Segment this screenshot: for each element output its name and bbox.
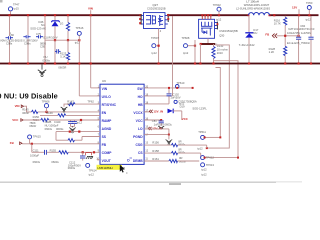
capacitor C66: [6, 16, 15, 63]
resistor R148: [29, 118, 100, 128]
svg-text:0603s: 0603s: [56, 127, 64, 131]
svg-text:EC-E-EX5_75K03c: EC-E-EX5_75K03c: [287, 41, 311, 45]
svg-text:VCC: VCC: [136, 119, 144, 123]
wire vertical x=79.3 to UVLO: [79, 40, 100, 96]
svg-text:TP607: TP607: [151, 36, 159, 40]
svg-text:CSD19532Q5B: CSD19532Q5B: [147, 7, 166, 11]
Q27 source pin 4: [159, 29, 162, 33]
capacitor C112 + earth ground + TP614: [68, 152, 97, 176]
wire SW sense (vertical x=235.6): [214, 61, 239, 158]
svg-text:C111: C111: [33, 148, 40, 152]
junctions on ground bus: [8, 62, 312, 64]
svg-text:TP613: TP613: [206, 163, 214, 167]
capacitor C408 bank + ground: [45, 120, 83, 133]
svg-text:10.7K: 10.7K: [274, 22, 281, 26]
svg-text:1G: 1G: [60, 21, 64, 25]
test point TP611: [197, 130, 221, 150]
svg-text:0603s: 0603s: [51, 160, 59, 164]
resistor R123 5.1K: [60, 40, 70, 63]
wire PGND row + ground: [144, 134, 172, 146]
svg-text:NU: NU: [41, 23, 45, 27]
svg-text:tp15: tp15: [14, 6, 20, 10]
svg-text:9 NU: U9 Disable: 9 NU: U9 Disable: [0, 91, 58, 100]
transistor Q27 CSD19532Q5B: [144, 3, 166, 29]
svg-text:TP602: TP602: [213, 3, 221, 7]
U9 pin numbers right: [145, 85, 148, 160]
IC U9 LM5118 box: [100, 79, 144, 165]
resistor R158 0R (CS): [144, 148, 201, 158]
net FB label: [265, 32, 299, 38]
svg-text:LM5118MH: LM5118MH: [97, 166, 112, 170]
svg-text:tp12: tp12: [183, 51, 189, 55]
svg-text:tp12: tp12: [216, 17, 222, 21]
svg-text:0603r: 0603r: [178, 143, 185, 147]
wire sense line CS (vertical x=228.1): [206, 45, 230, 149]
test point TP60: [306, 1, 313, 21]
svg-text:100uF/35V 1uF/50V: 100uF/35V 1uF/50V: [287, 31, 311, 35]
svg-text:C42B: C42B: [45, 120, 52, 124]
svg-text:1.2K: 1.2K: [269, 50, 275, 54]
svg-text:FB: FB: [10, 141, 14, 145]
svg-text:L2-SUNLORD-WWS41206S: L2-SUNLORD-WWS41206S: [236, 6, 270, 10]
svg-text:1000pF: 1000pF: [30, 153, 39, 157]
svg-text:TP611: TP611: [198, 130, 206, 134]
svg-text:T-J02-A1K42: T-J02-A1K42: [239, 43, 255, 47]
svg-text:UVLO: UVLO: [102, 95, 112, 99]
svg-text:C81: C81: [152, 119, 157, 123]
window edge line bottom: [0, 181, 302, 185]
svg-text:0603r: 0603r: [178, 151, 185, 155]
net VCC flag (RAMP row): [12, 118, 41, 122]
wire VCC pin row + capacitor C88: [144, 119, 172, 129]
svg-text:LO: LO: [138, 127, 143, 131]
svg-text:TP616: TP616: [76, 26, 84, 30]
capacitor C96: [36, 16, 45, 63]
U9 right pin names: [127, 87, 143, 163]
svg-text:tp12: tp12: [89, 173, 95, 177]
test point TP608: [182, 36, 197, 55]
svg-text:SW: SW: [137, 87, 143, 91]
diode D18: [168, 107, 208, 114]
svg-text:R155: R155: [50, 148, 57, 152]
capacitor C86: [287, 16, 314, 63]
test point TP607: [151, 36, 160, 55]
svg-text:R158: R158: [152, 149, 159, 153]
wire sense line CSG (vertical x=221.7): [216, 68, 221, 138]
svg-text:0603s: 0603s: [45, 127, 53, 131]
svg-text:TP612: TP612: [206, 155, 214, 159]
net FB flag row: [10, 141, 100, 145]
svg-text:VCC: VCC: [182, 117, 189, 121]
svg-text:0603s: 0603s: [68, 166, 76, 170]
U9 pin stubs: [97, 136, 147, 160]
svg-text:0.1UF/100V: 0.1UF/100V: [43, 35, 58, 39]
svg-text:CS: CS: [138, 151, 143, 155]
resistor R149 row: [40, 111, 100, 117]
svg-text:1uF/50V: 1uF/50V: [170, 96, 180, 100]
net 12V label: [292, 6, 299, 15]
svg-text:C95: C95: [40, 44, 45, 48]
Q27 right pin stubs: [165, 14, 169, 24]
net VCC label: [182, 117, 189, 121]
Q27 left pin stubs: [139, 14, 143, 24]
net VIN label: [88, 7, 93, 15]
test point TP602: [213, 3, 222, 21]
net VIN flag (EN row): [15, 104, 32, 112]
svg-text:Q27: Q27: [153, 3, 159, 7]
svg-text:SOD-123FL: SOD-123FL: [192, 107, 207, 111]
test point TP615: [28, 134, 42, 144]
svg-text:PGND: PGND: [133, 135, 143, 139]
svg-text:tp12: tp12: [201, 168, 207, 172]
svg-text:TP47: TP47: [13, 3, 20, 7]
svg-text:EN: EN: [102, 111, 107, 115]
svg-text:tp12: tp12: [197, 147, 203, 151]
svg-text:C9Bs: C9Bs: [24, 42, 31, 46]
svg-text:RT/SYNC: RT/SYNC: [102, 103, 117, 107]
resistor R116 10.7K: [274, 16, 287, 46]
svg-text:10 mohm: 10 mohm: [217, 48, 229, 52]
test point TP606: [42, 99, 50, 112]
svg-text:C75: C75: [36, 32, 41, 36]
capacitor C84: [288, 16, 314, 63]
svg-text:SOD-123-AK: SOD-123-AK: [30, 27, 46, 31]
svg-text:VCC: VCC: [12, 118, 19, 122]
svg-text:Q30: Q30: [219, 34, 225, 38]
wire LO pin row: [144, 127, 169, 135]
svg-text:0603r: 0603r: [179, 160, 186, 164]
svg-text:0R: 0R: [179, 156, 182, 160]
svg-text:2010: 2010: [217, 51, 223, 55]
svg-text:R156: R156: [152, 141, 159, 145]
capacitor (x=55 lower): [43, 40, 61, 63]
svg-text:C98s: C98s: [6, 42, 13, 46]
net 12V_IN label: [144, 109, 163, 113]
svg-text:0603r: 0603r: [29, 124, 36, 128]
resistor R128 1.2K: [269, 46, 287, 63]
inductor L7 100uH: [236, 0, 271, 16]
svg-text:12V: 12V: [292, 6, 297, 10]
svg-text:AGND: AGND: [102, 127, 112, 131]
svg-text:TP606: TP606: [42, 99, 50, 103]
svg-text:NU: NU: [253, 31, 257, 35]
wire x=200.4 down to gnd bus: [199, 44, 201, 64]
transistor Q30 CSD19532Q5B: [199, 19, 215, 38]
wire HO pin row + vertical: [144, 16, 172, 96]
svg-text:R149: R149: [46, 111, 53, 115]
resistor R161 0R (DEMB): [144, 156, 199, 164]
U9 part number highlighted: [97, 165, 129, 175]
svg-text:0603R: 0603R: [58, 66, 66, 70]
svg-text:VIN: VIN: [15, 104, 20, 108]
wire vertical x=195: [194, 40, 196, 64]
mouse cursor: [120, 165, 125, 173]
svg-text:NU: NU: [44, 55, 48, 59]
test point TP47: [8, 3, 20, 15]
wire VCCX-D18 vertical: [178, 111, 182, 120]
svg-text:TP60: TP60: [306, 1, 313, 5]
svg-text:CSD19532Q5B: CSD19532Q5B: [219, 29, 238, 33]
svg-text:VOUT: VOUT: [102, 159, 111, 163]
value labels left capacitor bank: [0, 32, 58, 49]
svg-text:tp12: tp12: [152, 51, 158, 55]
svg-text:CSG: CSG: [135, 143, 143, 147]
node junctions on top bus: [8, 14, 310, 16]
capacitor C111 + resistor R155 (COMP network): [30, 144, 100, 164]
wire SS row: [56, 137, 100, 142]
resistor (vertical, at x=68 top): [66, 16, 69, 40]
test point TP612: [201, 155, 239, 159]
svg-text:C440: C440: [54, 120, 61, 124]
Q30 source pin 1 + SW bold link: [200, 38, 219, 46]
svg-text:FB: FB: [102, 143, 107, 147]
wire main VIN top bus: [0, 14, 319, 16]
diode D17: [239, 16, 259, 63]
Q30 labels: [219, 29, 238, 37]
svg-text:VCCX: VCCX: [133, 111, 143, 115]
svg-text:0603s: 0603s: [33, 160, 41, 164]
test point TP609 + diode D19 labels: [174, 99, 197, 108]
svg-text:tp12: tp12: [201, 172, 207, 176]
svg-text:tp12: tp12: [77, 121, 83, 125]
svg-text:WWS41206S-101MT: WWS41206S-101MT: [244, 3, 270, 7]
svg-text:0603r: 0603r: [22, 111, 29, 115]
wire SW node vertical x=158.6: [158, 31, 160, 63]
wire node row y39.4: [45, 39, 80, 41]
capacitor C121 (HB boot): [144, 87, 181, 104]
test point TP613: [201, 163, 215, 177]
svg-text:DEMB: DEMB: [133, 159, 143, 163]
test point TP610: [175, 81, 184, 89]
svg-text:12V_IN: 12V_IN: [153, 109, 163, 113]
wire SW pin row: [144, 87, 194, 89]
svg-text:R161: R161: [152, 157, 159, 161]
svg-text:U9: U9: [102, 79, 106, 83]
resistor R130 10 mohm: [212, 44, 229, 63]
wire AGND row: [56, 129, 100, 140]
Q30 right pin stubs: [215, 22, 219, 30]
U9 left pin names: [102, 87, 117, 163]
svg-text:D19: D19: [180, 104, 185, 108]
svg-text:RAMP: RAMP: [102, 119, 113, 123]
Q30 drain pin stubs to bus: [201, 14, 212, 19]
svg-text:TP608: TP608: [182, 36, 190, 40]
svg-text:VIN: VIN: [102, 87, 108, 91]
svg-text:0306s: 0306s: [43, 58, 51, 62]
ground bus: [0, 63, 320, 65]
svg-text:COMP: COMP: [102, 151, 113, 155]
resistor R156 0R (CSG): [144, 140, 207, 149]
diode D46: [30, 16, 63, 40]
corner mark: [0, 0, 3, 3]
svg-text:HB: HB: [138, 103, 143, 107]
resistor R145: [22, 108, 100, 115]
test point TP616: [75, 26, 84, 44]
capacitor C95: [23, 16, 30, 63]
svg-text:TP614: TP614: [89, 169, 97, 173]
ground symbol (left): [38, 64, 46, 76]
svg-text:FB: FB: [265, 32, 269, 36]
svg-text:5.1K: 5.1K: [60, 54, 66, 58]
svg-text:TP615: TP615: [33, 134, 41, 138]
resistor R147 + ground (RT/SYNC): [61, 99, 100, 112]
wire vertical x=90.7 VIN to pin1: [91, 16, 100, 88]
svg-text:VIN: VIN: [88, 7, 93, 11]
resistor R150 labels: [33, 115, 40, 122]
svg-text:tp12: tp12: [306, 17, 312, 21]
svg-text:TP62: TP62: [87, 100, 94, 104]
svg-text:HO: HO: [138, 95, 143, 99]
U9 pin numbers left: [96, 85, 99, 160]
